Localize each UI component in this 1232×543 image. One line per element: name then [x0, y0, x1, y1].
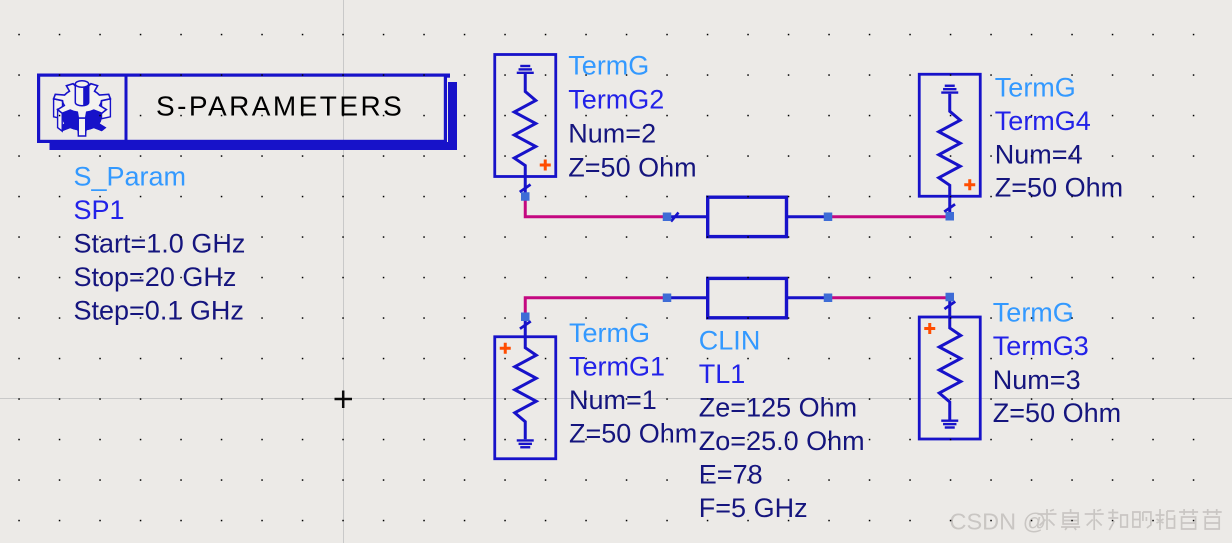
text: TermG4 block [995, 73, 1123, 203]
termination TermG1 [495, 313, 556, 459]
text: CLIN block [699, 326, 865, 524]
wire W4 (CLIN pin4 to TermG3) [828, 296, 950, 299]
node at TL1 pin 4 [824, 294, 833, 303]
S-PARAMETERS banner shadow [50, 142, 458, 150]
S-PARAMETERS banner box [39, 75, 446, 141]
node at TL1 pin 1 [663, 213, 672, 222]
gear icon [54, 81, 111, 136]
termination TermG2 [495, 55, 556, 201]
termination TermG3 [919, 293, 980, 439]
node at TL1 pin 3 [663, 294, 672, 303]
wire tick at TL1 pin 1 [671, 213, 679, 222]
TL1 pin 2 lead [788, 215, 828, 218]
TL1 pin 4 lead [788, 296, 828, 299]
wire W1 (TermG2 to CLIN pin1) [525, 197, 667, 217]
wire W3 (TermG1 to CLIN pin3) [525, 298, 667, 317]
TL1 pin 3 lead [667, 296, 707, 299]
coupled-line TL1 lower line body [708, 278, 787, 317]
termination TermG4 [919, 74, 980, 220]
coupled-line TL1 upper line body [708, 197, 787, 236]
TL1 pin 1 lead [667, 215, 707, 218]
node at TL1 pin 2 [824, 213, 833, 222]
wire W2 (CLIN pin2 to TermG4) [828, 215, 950, 218]
text: TermG3 block [993, 298, 1121, 429]
text: TermG1 block [569, 318, 697, 449]
text: S_Param block [74, 162, 246, 326]
axis lines [343, 0, 345, 543]
origin crosshair marker [335, 391, 353, 409]
text: TermG2 block [568, 51, 696, 183]
